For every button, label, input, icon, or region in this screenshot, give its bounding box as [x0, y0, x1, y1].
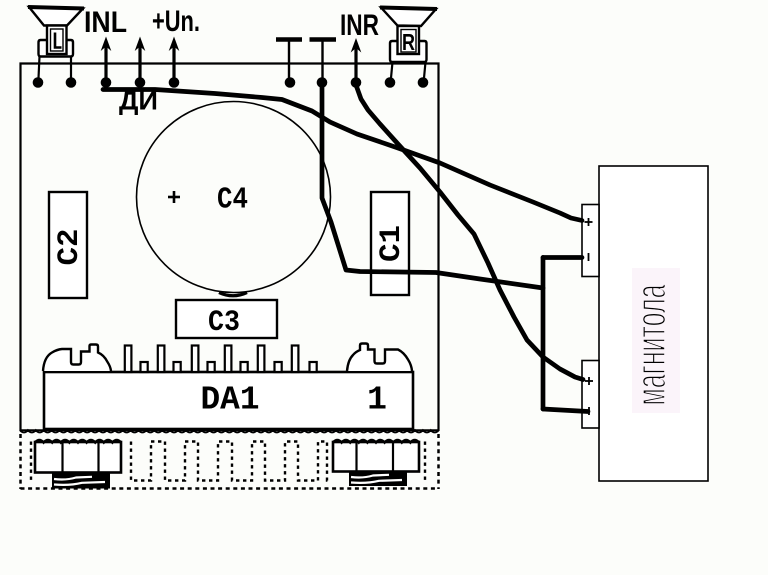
svg-text:DA1: DA1: [201, 382, 260, 419]
svg-text:магнитола: магнитола: [628, 284, 674, 405]
svg-text:+Un.: +Un.: [152, 5, 200, 38]
svg-text:R: R: [402, 29, 415, 55]
svg-text:INL: INL: [84, 6, 127, 39]
svg-text:C4: C4: [217, 183, 248, 218]
svg-text:1: 1: [367, 382, 387, 419]
svg-text:C1: C1: [375, 225, 409, 262]
svg-text:C2: C2: [53, 229, 87, 266]
svg-text:INR: INR: [340, 9, 379, 42]
svg-text:C3: C3: [208, 306, 240, 340]
